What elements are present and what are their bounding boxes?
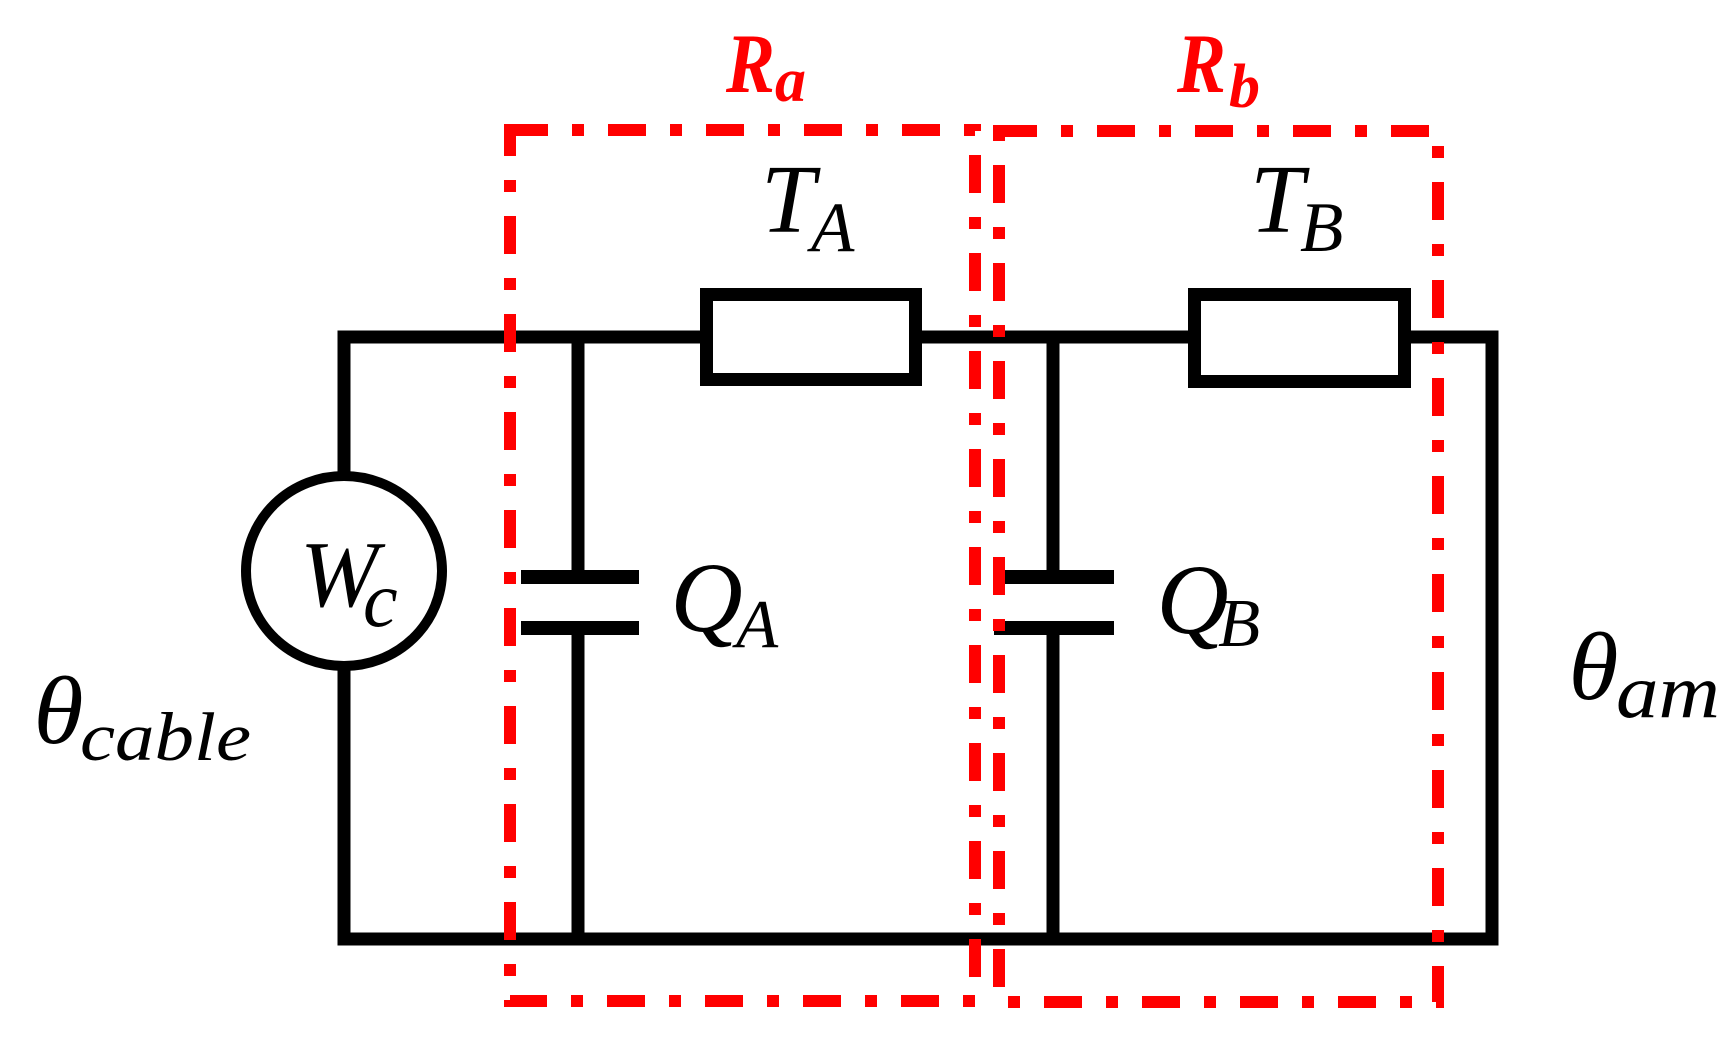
svg-text:a: a (775, 47, 806, 115)
svg-text:θ: θ (1569, 613, 1619, 720)
svg-text:B: B (1218, 585, 1260, 661)
svg-text:am: am (1616, 650, 1720, 734)
svg-text:A: A (807, 189, 855, 267)
svg-text:A: A (732, 586, 779, 662)
svg-text:B: B (1300, 189, 1343, 267)
svg-text:c: c (363, 556, 398, 643)
svg-text:R: R (725, 17, 775, 111)
svg-text:R: R (1176, 17, 1226, 111)
svg-text:θ: θ (34, 657, 84, 764)
svg-text:cable: cable (80, 699, 251, 775)
svg-text:Q: Q (671, 542, 743, 653)
svg-text:b: b (1229, 53, 1260, 121)
